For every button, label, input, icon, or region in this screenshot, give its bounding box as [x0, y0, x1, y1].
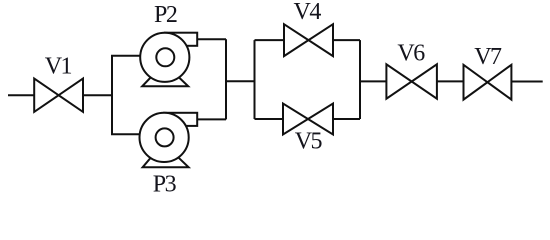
svg-text:V4: V4 — [294, 0, 322, 25]
svg-text:P3: P3 — [153, 172, 177, 198]
svg-text:V5: V5 — [295, 128, 323, 154]
svg-text:V1: V1 — [45, 54, 72, 80]
svg-text:V7: V7 — [474, 44, 502, 70]
svg-text:P2: P2 — [154, 2, 177, 28]
svg-text:V6: V6 — [397, 41, 425, 67]
